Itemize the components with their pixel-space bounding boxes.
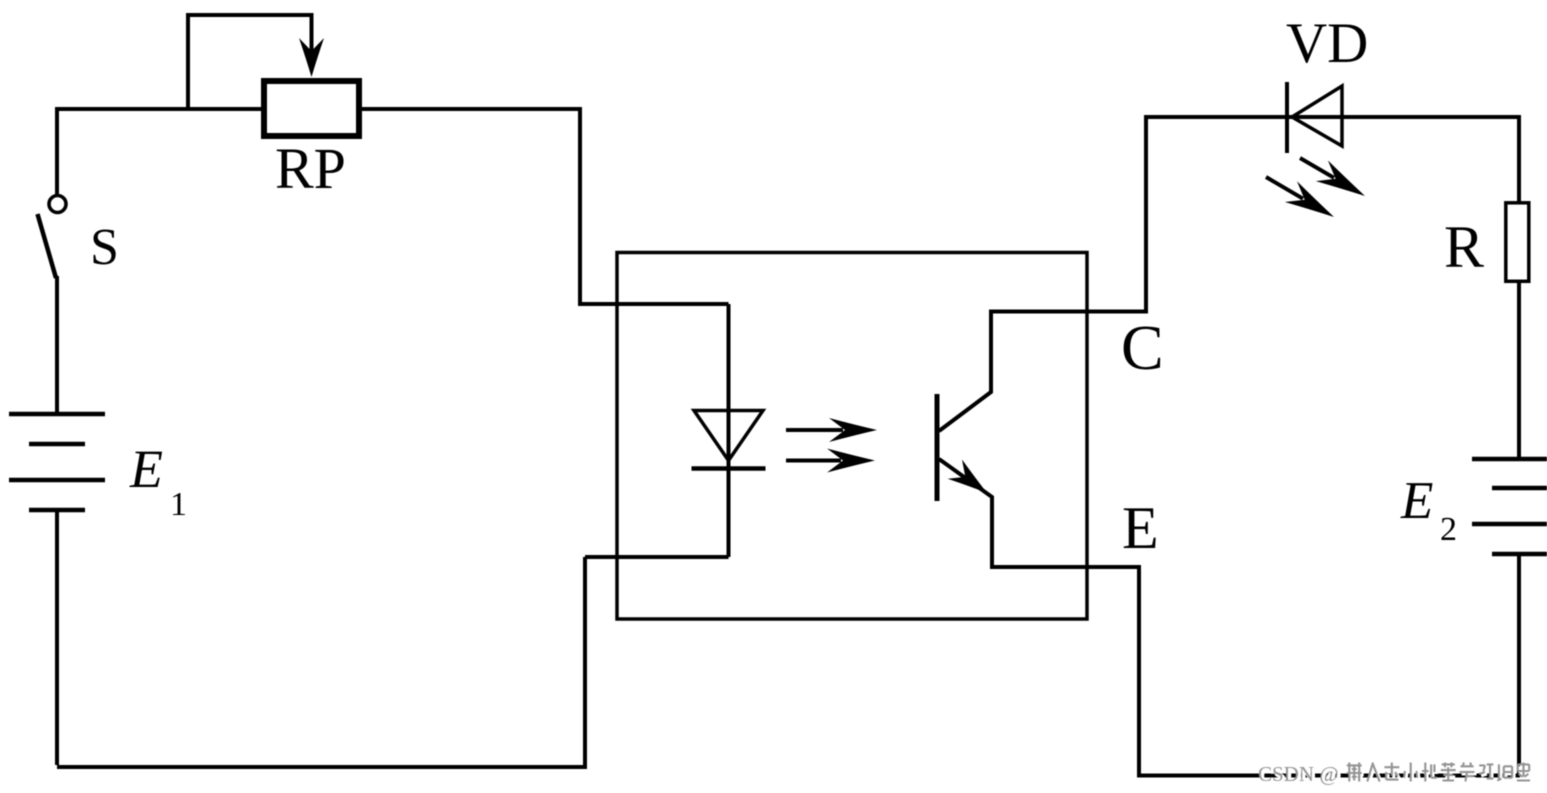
svg-text:C: C xyxy=(1121,312,1164,383)
svg-text:RP: RP xyxy=(275,136,346,201)
svg-text:E: E xyxy=(1400,472,1433,530)
svg-text:CSDN @: CSDN @ xyxy=(1258,762,1339,786)
svg-text:2: 2 xyxy=(1440,511,1457,548)
svg-text:S: S xyxy=(90,219,119,276)
svg-text:E: E xyxy=(129,439,163,499)
svg-text:R: R xyxy=(1444,214,1484,280)
svg-text:VD: VD xyxy=(1286,12,1368,75)
svg-text:1: 1 xyxy=(170,486,187,523)
svg-text:E: E xyxy=(1122,495,1159,561)
